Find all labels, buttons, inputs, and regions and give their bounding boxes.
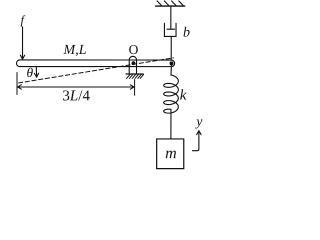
svg-text:m: m xyxy=(165,145,177,162)
damper rod lower xyxy=(170,36,172,60)
dimension line 3L/4 xyxy=(18,85,135,89)
force f arrow xyxy=(20,27,24,59)
svg-text:3L/4: 3L/4 xyxy=(62,88,90,104)
damper cylinder xyxy=(164,23,176,36)
beam M,L xyxy=(17,60,175,67)
spring k xyxy=(164,64,179,139)
svg-text:b: b xyxy=(183,26,190,41)
mass m box xyxy=(157,139,184,169)
dashed rotated-beam line xyxy=(19,58,174,83)
pivot ground line xyxy=(126,73,143,75)
damper piston xyxy=(167,28,175,30)
pivot pin xyxy=(132,61,136,65)
svg-text:O: O xyxy=(129,42,139,57)
theta arrow xyxy=(34,67,38,77)
svg-text:y: y xyxy=(194,114,202,129)
pivot arch xyxy=(129,56,136,74)
svg-text:θ: θ xyxy=(26,65,33,80)
y axis arrow xyxy=(192,131,201,151)
pivot ground hatching xyxy=(127,74,144,78)
svg-text:f: f xyxy=(20,13,25,27)
damper rod upper xyxy=(170,6,172,29)
dimension extension line left xyxy=(16,72,18,94)
ceiling anchor xyxy=(156,1,185,6)
beam end joint dot xyxy=(170,61,174,65)
svg-text:M,L: M,L xyxy=(63,43,87,58)
svg-text:k: k xyxy=(180,88,187,104)
dimension extension line right xyxy=(134,80,136,96)
